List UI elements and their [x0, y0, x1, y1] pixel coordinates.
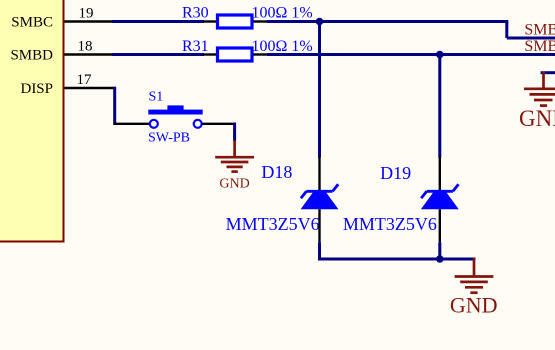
zener diode D18	[301, 184, 339, 209]
wire D19 to bottom rail	[438, 242, 441, 259]
svg-text:S1: S1	[149, 90, 164, 105]
svg-text:GND: GND	[219, 177, 249, 192]
zener diode D19	[421, 184, 459, 209]
svg-text:17: 17	[77, 72, 93, 88]
svg-text:R31: R31	[182, 38, 209, 55]
wire top-right GND stub	[541, 71, 555, 74]
diode D19 top pin	[439, 157, 441, 191]
svg-text:100Ω 1%: 100Ω 1%	[252, 5, 313, 22]
ground symbol GND (bottom right)	[455, 258, 494, 293]
svg-text:SMBC: SMBC	[11, 15, 53, 31]
wire switch to GND	[233, 123, 236, 142]
svg-text:100Ω 1%: 100Ω 1%	[252, 38, 313, 55]
junction dot on SMBD net	[436, 51, 444, 59]
IC component body U (yellow, clipped at left/top)	[0, 0, 64, 242]
switch S1 right pin	[202, 123, 236, 125]
resistor R30 body	[218, 15, 253, 28]
switch S1 right contact	[194, 120, 202, 128]
resistor R30 left pin	[203, 20, 216, 22]
junction dot on SMBC net	[316, 18, 324, 26]
wire DISP vertical	[113, 87, 116, 125]
diode D18 bottom pin	[318, 209, 320, 242]
svg-text:SMBD: SMBD	[10, 48, 53, 64]
svg-text:SMBD: SMBD	[524, 38, 555, 55]
svg-text:SMBC: SMBC	[524, 22, 555, 39]
wire D18 to bottom rail	[320, 242, 476, 259]
switch S1 left contact	[150, 120, 158, 128]
pin 19	[65, 20, 114, 22]
svg-text:MMT3Z5V6: MMT3Z5V6	[226, 214, 320, 234]
resistor R31 left pin	[203, 53, 216, 55]
svg-text:GND: GND	[450, 293, 498, 318]
resistor R31 right pin	[253, 53, 268, 55]
svg-text:SW-PB: SW-PB	[148, 131, 190, 146]
resistor R30 right pin	[253, 20, 268, 22]
svg-text:MMT3Z5V6: MMT3Z5V6	[343, 214, 437, 234]
wire step to right edge	[507, 37, 555, 40]
svg-text:19: 19	[79, 6, 94, 22]
junction dot on bottom rail	[436, 255, 444, 263]
svg-text:GND: GND	[519, 106, 555, 131]
wire pin19 to R30	[112, 20, 204, 23]
ground symbol GND (switch)	[215, 141, 254, 172]
svg-text:DISP: DISP	[20, 81, 53, 97]
wire pin18 to R31	[112, 53, 204, 56]
pin 17	[65, 87, 117, 89]
switch S1 bar	[148, 110, 202, 115]
switch S1 left pin	[114, 123, 151, 125]
svg-text:R30: R30	[182, 5, 209, 22]
wire R31 to right edge	[267, 53, 555, 56]
wire step vertical	[505, 22, 508, 39]
diode D19 bottom pin	[439, 209, 441, 242]
svg-text:D19: D19	[380, 163, 411, 183]
ground symbol GND (top right, clipped)	[524, 72, 555, 106]
wire net SMBD down to D19	[438, 53, 441, 158]
diode D18 top pin	[318, 157, 320, 191]
svg-text:D18: D18	[261, 162, 292, 182]
resistor R31 body	[218, 48, 253, 61]
wire R30 to right step	[267, 20, 508, 23]
switch S1 actuator bump	[167, 105, 183, 110]
pin 18	[65, 53, 114, 55]
wire net SMBC down to D18	[318, 20, 321, 158]
svg-text:18: 18	[78, 39, 93, 55]
